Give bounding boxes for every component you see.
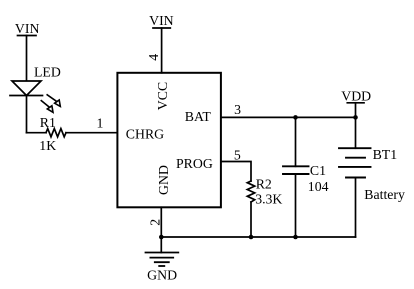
svg-text:Battery: Battery [364, 187, 405, 202]
svg-text:104: 104 [308, 179, 329, 194]
svg-text:CHRG: CHRG [126, 126, 164, 141]
svg-text:1K: 1K [39, 138, 56, 153]
svg-text:5: 5 [234, 148, 241, 163]
svg-text:LED: LED [34, 64, 61, 79]
svg-text:VCC: VCC [155, 82, 170, 110]
svg-text:2: 2 [147, 219, 162, 226]
svg-text:PROG: PROG [176, 156, 213, 171]
svg-text:VDD: VDD [341, 88, 371, 103]
svg-text:BT1: BT1 [373, 147, 398, 162]
svg-text:3: 3 [234, 102, 241, 117]
svg-text:GND: GND [147, 267, 177, 282]
svg-text:3.3K: 3.3K [255, 191, 282, 206]
svg-text:R2: R2 [256, 176, 272, 191]
svg-text:VIN: VIN [149, 13, 174, 28]
svg-text:GND: GND [156, 165, 171, 195]
svg-text:4: 4 [146, 54, 161, 61]
svg-text:R1: R1 [40, 115, 56, 130]
svg-text:BAT: BAT [185, 109, 212, 124]
svg-text:VIN: VIN [15, 21, 40, 36]
svg-text:1: 1 [97, 115, 104, 130]
svg-text:C1: C1 [310, 163, 326, 178]
